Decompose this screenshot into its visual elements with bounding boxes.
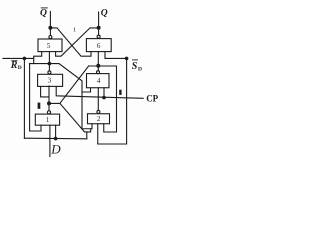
svg-text:CP: CP: [146, 94, 158, 104]
svg-text:3: 3: [48, 77, 52, 85]
svg-text:R: R: [10, 60, 18, 71]
svg-text:S: S: [132, 61, 138, 72]
svg-text:D: D: [138, 66, 142, 72]
svg-text:1: 1: [73, 27, 76, 34]
svg-text:D: D: [50, 142, 61, 157]
svg-text:6: 6: [97, 42, 101, 50]
svg-text:5: 5: [47, 42, 51, 50]
svg-text:1: 1: [46, 116, 50, 124]
svg-text:4: 4: [97, 77, 101, 85]
svg-text:Q: Q: [101, 8, 108, 19]
svg-text:2: 2: [97, 115, 101, 123]
svg-text:Q: Q: [40, 8, 47, 19]
svg-text:D: D: [18, 65, 22, 71]
